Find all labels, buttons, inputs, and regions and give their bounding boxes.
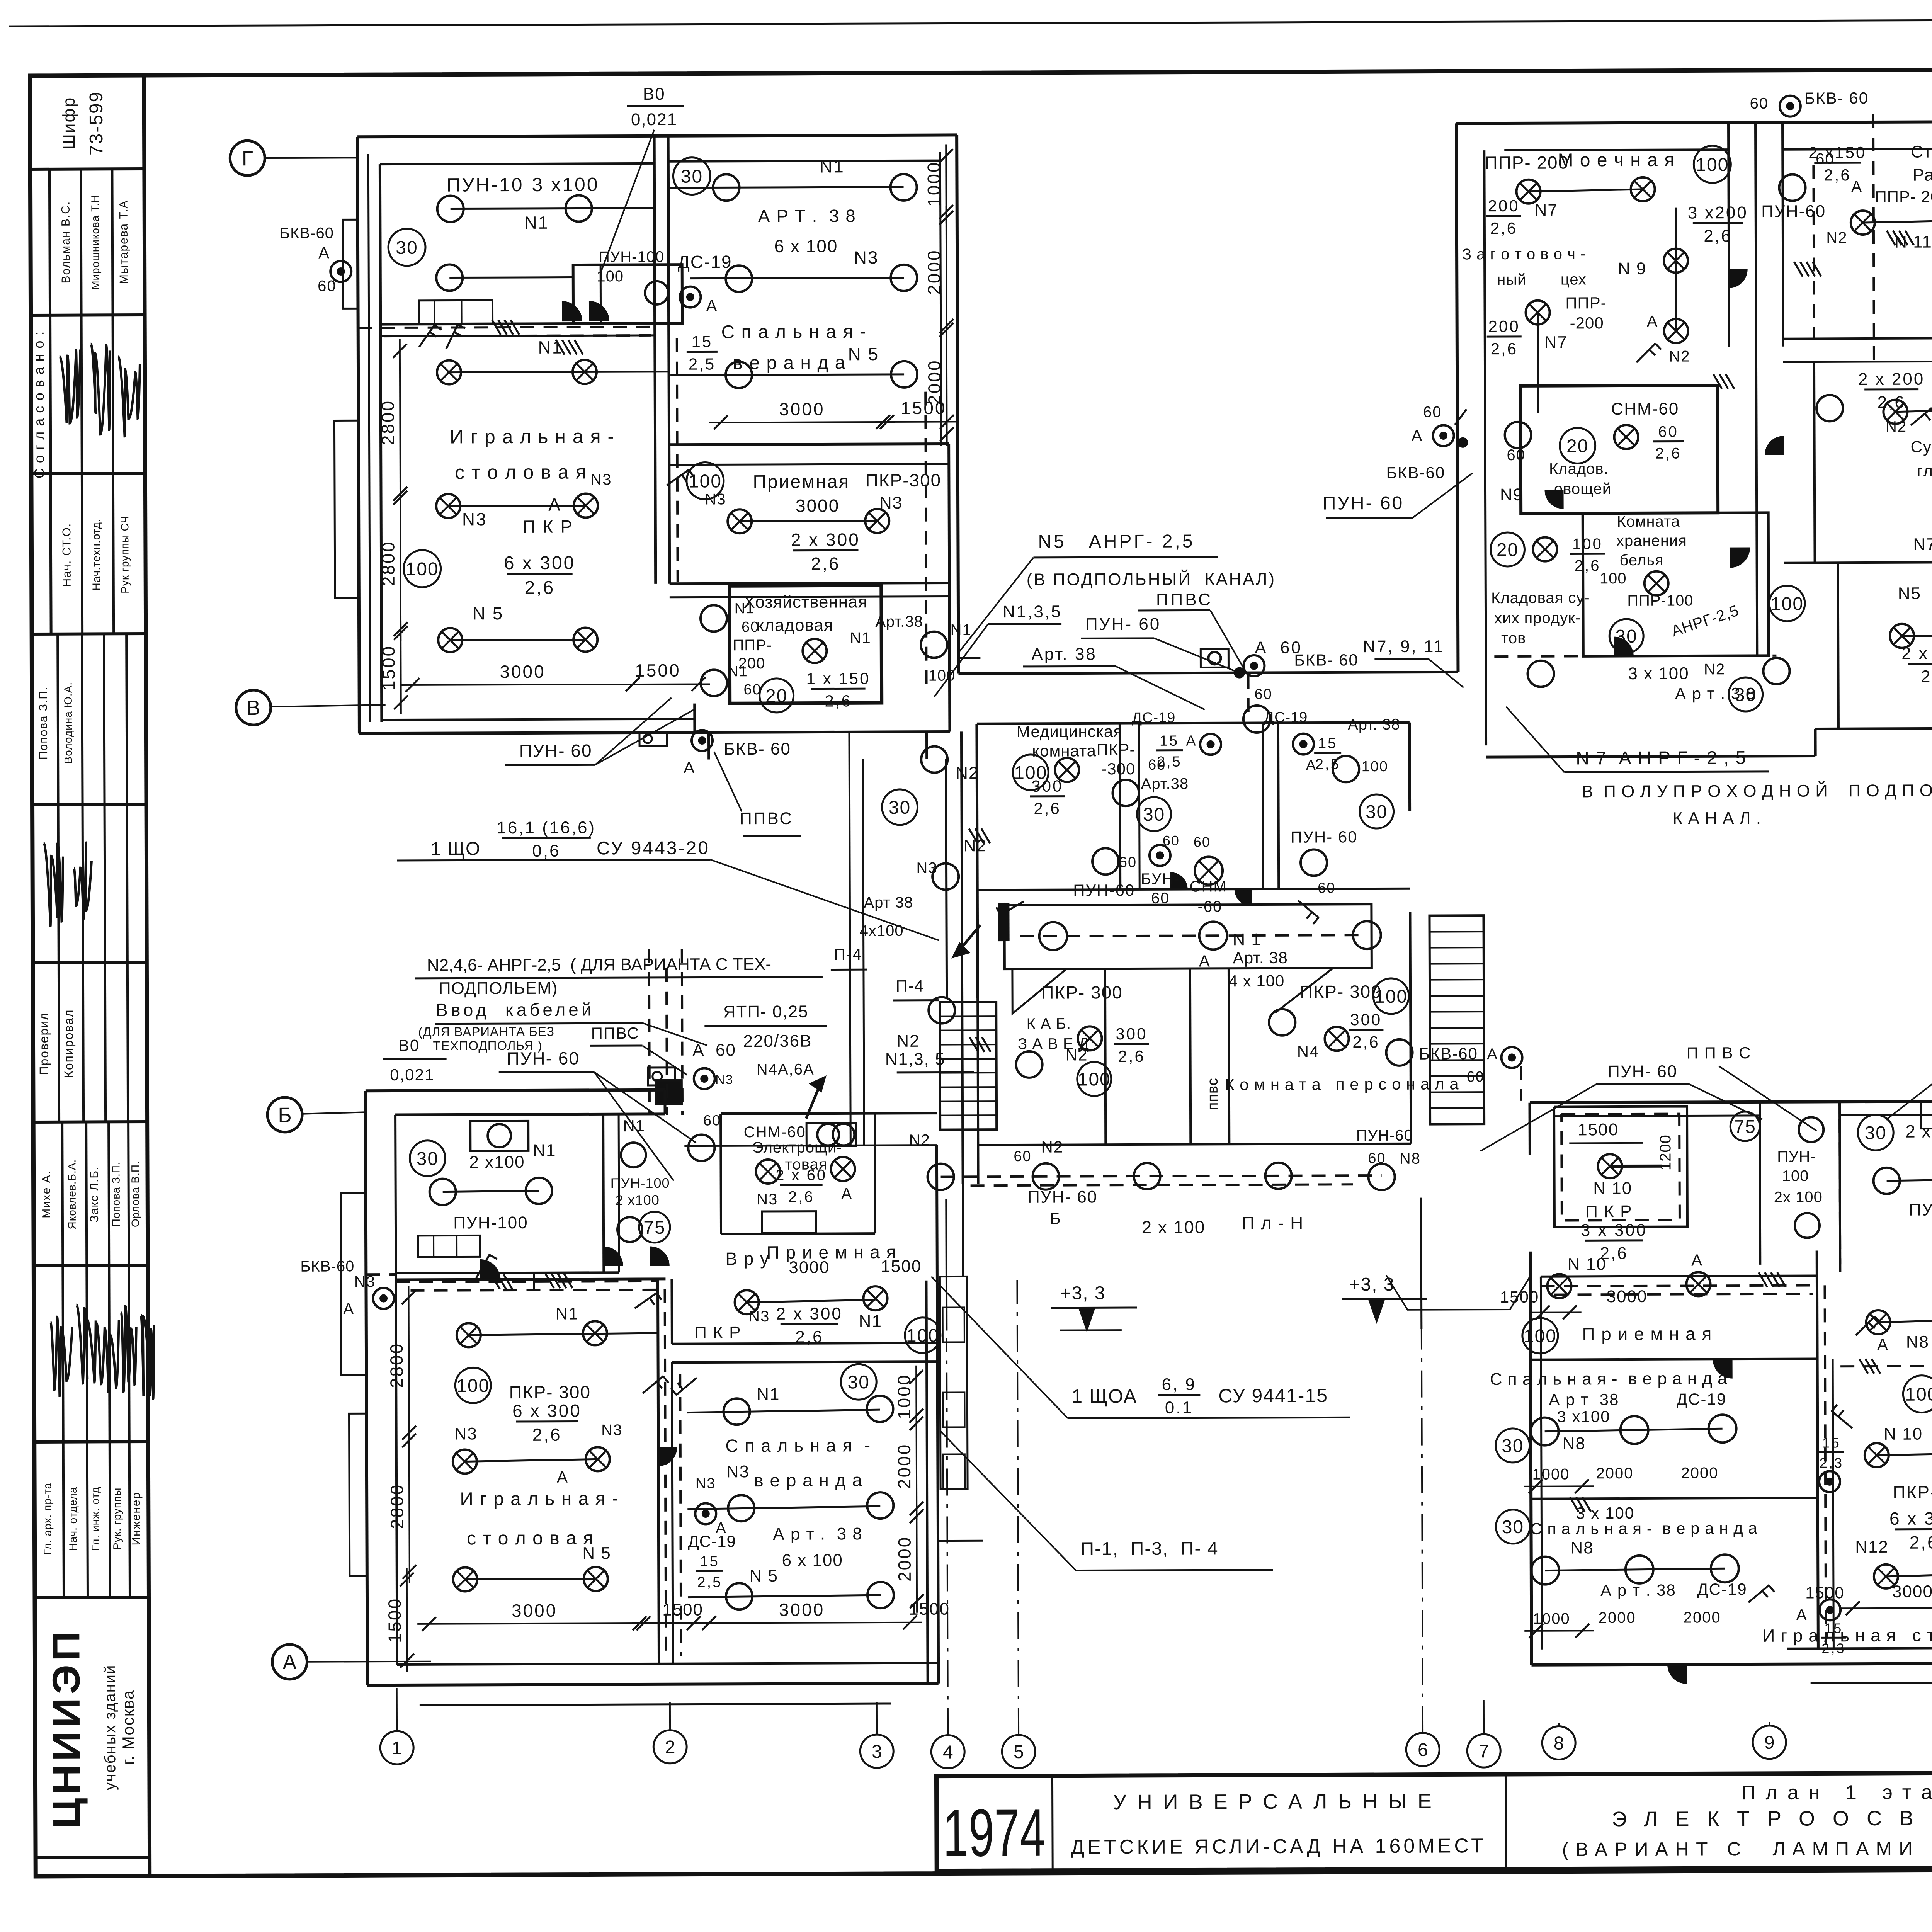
svg-text:2 х100: 2 х100 — [616, 1192, 660, 1208]
svg-text:1: 1 — [392, 1738, 402, 1759]
svg-text:ПУН-60: ПУН-60 — [1073, 881, 1135, 900]
svg-text:N8: N8 — [1400, 1150, 1421, 1167]
lamp (incandescent, circle-X) — [1890, 624, 1914, 648]
lamp (incandescent, circle-X) — [1664, 319, 1688, 343]
svg-text:100: 100 — [689, 471, 722, 492]
wire igralnaya row3 — [450, 639, 585, 640]
svg-text:П-4: П-4 — [834, 945, 862, 963]
grid line — [1483, 1700, 1485, 1734]
wire priemnaya BL — [747, 1300, 876, 1302]
wall lamp BKV (circle with dot) — [1820, 1599, 1840, 1620]
leader — [940, 1430, 1076, 1571]
TR bottom walls — [1486, 756, 1815, 757]
column bubble 4 — [931, 1735, 964, 1768]
svg-text:П р и е м н а я: П р и е м н а я — [767, 1242, 897, 1262]
pendant lamp (circle) — [645, 281, 668, 304]
svg-text:N 10: N 10 — [1593, 1179, 1632, 1198]
wire (dashed) — [1520, 1066, 1522, 1101]
svg-text:Хозяйственная: Хозяйственная — [743, 592, 867, 612]
svg-text:СНМ-60: СНМ-60 — [1611, 400, 1679, 419]
svg-text:ЭЛЕКТРООСВЕЩЕНИЕ: ЭЛЕКТРООСВЕЩЕНИЕ — [1612, 1806, 1932, 1831]
porch walls below C — [962, 1184, 964, 1276]
wire spalnya row3 — [670, 374, 904, 375]
signature — [141, 1315, 155, 1399]
svg-text:Приемная: Приемная — [753, 471, 850, 492]
dimension 2800 — [408, 1286, 409, 1444]
signature — [77, 1304, 96, 1383]
conduit hatch marks — [556, 340, 565, 355]
pendant lamp (circle) — [1134, 1163, 1160, 1189]
lamp (incandescent, circle-X) — [453, 1449, 477, 1473]
conduit hatch marks — [969, 828, 978, 843]
pendant lamp (circle) — [617, 1217, 642, 1242]
svg-text:N1: N1 — [555, 1304, 578, 1323]
pendant lamp (circle) — [566, 195, 592, 221]
svg-text:1 ЩОА: 1 ЩОА — [1071, 1385, 1137, 1407]
svg-text:60: 60 — [1014, 1148, 1031, 1165]
svg-text:А: А — [1487, 1046, 1498, 1063]
svg-text:Гл. арх. пр-та: Гл. арх. пр-та — [41, 1483, 54, 1555]
dimension 1000 — [945, 145, 947, 224]
svg-text:Кладовая су-: Кладовая су- — [1491, 589, 1590, 607]
column bubble 6 — [1406, 1733, 1439, 1766]
switch — [643, 1376, 663, 1393]
svg-text:N 5: N 5 — [582, 1544, 611, 1563]
svg-text:N1: N1 — [859, 1312, 882, 1331]
door leaf (filled arc) — [1614, 637, 1633, 656]
column bubble 1 — [380, 1731, 413, 1764]
conduit hatch marks — [491, 1274, 500, 1289]
svg-text:П л - Н: П л - Н — [1242, 1213, 1304, 1233]
pendant lamp (circle) — [1092, 848, 1119, 874]
pendant lamp (circle) — [927, 1163, 954, 1190]
lamp (incandescent, circle-X) — [1195, 857, 1223, 884]
rating circle 20 — [1560, 428, 1595, 463]
room divider TL horizontal left — [381, 323, 655, 324]
svg-text:2,6: 2,6 — [795, 1328, 823, 1347]
svg-text:Володина Ю.А.: Володина Ю.А. — [62, 682, 75, 764]
svg-text:N 10: N 10 — [1884, 1425, 1923, 1444]
leader — [710, 859, 939, 941]
pendant lamp (circle) — [1386, 1039, 1412, 1066]
svg-text:0,021: 0,021 — [631, 110, 677, 129]
dimension 3000 — [417, 1623, 651, 1624]
switch — [1748, 1585, 1769, 1602]
svg-text:100: 100 — [1524, 1326, 1557, 1347]
svg-text:Электрощи-: Электрощи- — [752, 1139, 842, 1156]
wall lamp BKV (circle with dot) — [373, 1288, 394, 1309]
svg-text:N2: N2 — [1704, 661, 1725, 678]
BR middle small room — [1760, 1102, 1760, 1265]
wall lamp BKV (circle with dot) — [1243, 655, 1264, 676]
switch — [676, 1378, 697, 1395]
wall lamp BKV (circle with dot) — [1819, 1471, 1840, 1492]
svg-text:N3: N3 — [748, 1308, 770, 1325]
lamp (incandescent, circle-X) — [583, 1321, 607, 1345]
svg-text:С п а л ь н а я - в е р а н д: С п а л ь н а я - в е р а н д а — [1530, 1519, 1757, 1538]
svg-text:хранения: хранения — [1616, 532, 1687, 550]
svg-text:ДС-19: ДС-19 — [1677, 1390, 1727, 1408]
svg-text:N3: N3 — [757, 1191, 778, 1208]
dimension 2800 — [409, 1429, 410, 1583]
rating circle 75 — [1730, 1112, 1760, 1141]
svg-text:К А Б.: К А Б. — [1026, 1015, 1071, 1032]
svg-text:А: А — [1877, 1335, 1889, 1354]
door leaf (filled arc) — [1170, 872, 1187, 889]
dimension — [632, 1622, 721, 1624]
svg-text:100: 100 — [1361, 759, 1388, 775]
C outer walls — [977, 723, 1410, 724]
svg-text:ПУН- 60: ПУН- 60 — [1323, 493, 1404, 514]
svg-text:4 х 100: 4 х 100 — [1229, 972, 1285, 990]
svg-text:ПУН-: ПУН- — [1777, 1148, 1816, 1165]
pendant lamp (circle) — [932, 863, 959, 889]
svg-text:ПУН-60: ПУН-60 — [1356, 1127, 1413, 1144]
wire (dashed) — [411, 1290, 658, 1291]
svg-text:ППР- 200: ППР- 200 — [1485, 152, 1569, 173]
svg-text:100: 100 — [1782, 1168, 1809, 1185]
svg-text:ППВС: ППВС — [740, 809, 793, 828]
lamp (incandescent, circle-X) — [1516, 180, 1540, 204]
svg-text:Б: Б — [278, 1104, 292, 1127]
svg-text:N 1: N 1 — [1233, 930, 1262, 949]
dimension 3000 — [709, 422, 895, 423]
svg-text:15: 15 — [691, 332, 713, 350]
svg-text:СУ 9443-20: СУ 9443-20 — [597, 838, 710, 859]
svg-text:0,6: 0,6 — [532, 842, 560, 861]
svg-text:Кладов.: Кладов. — [1549, 460, 1609, 477]
rating circle 100 — [905, 1318, 940, 1353]
svg-text:ПУН- 60: ПУН- 60 — [1085, 615, 1161, 634]
axis leader — [265, 157, 357, 159]
stamp column right edge — [144, 75, 150, 1876]
wire moechnaya — [1529, 189, 1643, 192]
svg-text:6 х 100: 6 х 100 — [782, 1551, 843, 1570]
svg-text:ппвс: ппвс — [1205, 1078, 1221, 1110]
pendant lamp (circle) — [921, 632, 947, 658]
conduit hatch marks — [1759, 1272, 1767, 1287]
pendant lamp (circle) — [1711, 1554, 1739, 1582]
svg-text:N 5: N 5 — [473, 603, 504, 623]
svg-text:60: 60 — [703, 1112, 721, 1129]
rating circle 100 — [1522, 1318, 1558, 1354]
svg-text:1000: 1000 — [894, 1374, 914, 1420]
svg-text:А р т 38: А р т 38 — [1549, 1390, 1619, 1409]
svg-text:А: А — [1647, 312, 1658, 330]
rating circle 100 — [1903, 1375, 1932, 1412]
wall lamp BKV (circle with dot) — [680, 287, 701, 308]
pendant lamp (circle) — [1531, 1418, 1559, 1446]
svg-text:N8: N8 — [1563, 1434, 1586, 1453]
svg-text:А 60: А 60 — [692, 1041, 736, 1060]
BR top-left room (N10 PKR) — [1554, 1107, 1687, 1227]
rating circle 75 — [639, 1212, 670, 1243]
wire top room BL — [443, 1191, 539, 1192]
room divider Spalnya/Priemnaya — [669, 444, 949, 445]
svg-text:N8: N8 — [1906, 1333, 1929, 1352]
wire (dashed) — [649, 949, 650, 1115]
svg-text:100: 100 — [406, 559, 439, 580]
porch outline center-bottom — [938, 1540, 983, 1542]
wire (dashed) — [1825, 1285, 1826, 1645]
svg-text:2: 2 — [665, 1737, 675, 1758]
rating circle 100 — [687, 462, 724, 499]
svg-text:N1: N1 — [533, 1141, 556, 1160]
svg-text:N1: N1 — [735, 600, 755, 617]
column bubble 7 — [1467, 1734, 1500, 1767]
svg-text:Попова З.П.: Попова З.П. — [110, 1162, 122, 1226]
TL balcony left — [343, 219, 358, 308]
wall lamp BKV (circle with dot) — [1780, 96, 1801, 117]
svg-text:(ДЛЯ ВАРИАНТА БЕЗ: (ДЛЯ ВАРИАНТА БЕЗ — [418, 1024, 554, 1039]
lamp (incandescent, circle-X) — [865, 509, 889, 533]
svg-text:N 5: N 5 — [750, 1566, 779, 1585]
switch — [667, 470, 689, 485]
svg-text:200: 200 — [1488, 317, 1520, 335]
svg-text:2,6: 2,6 — [1921, 667, 1932, 686]
svg-text:в е р а н д а: в е р а н д а — [733, 352, 846, 373]
svg-text:30: 30 — [1502, 1517, 1524, 1537]
axis leader — [271, 705, 386, 707]
TL bottom wall — [359, 733, 695, 734]
pendant lamp (circle) — [1208, 652, 1221, 664]
wire (dashed) — [941, 1175, 1382, 1177]
svg-text:N2: N2 — [956, 764, 979, 782]
conduit hatch marks — [1570, 1497, 1578, 1512]
lamp (incandescent, circle-X) — [586, 1447, 610, 1471]
svg-text:N 7 А Н Р Г - 2 , 5: N 7 А Н Р Г - 2 , 5 — [1576, 748, 1747, 769]
wall lamp BKV (circle with dot) — [692, 730, 713, 751]
rating circle 30 — [1609, 619, 1643, 653]
rating circle 30 — [1137, 797, 1171, 831]
svg-text:ПУН- 60: ПУН- 60 — [507, 1048, 580, 1069]
pendant lamp (circle) — [726, 362, 752, 388]
lamp (incandescent, circle-X) — [863, 1286, 887, 1310]
pendant lamp (circle) — [921, 747, 947, 773]
svg-text:N8: N8 — [1570, 1538, 1594, 1557]
wire (dashed) — [1247, 675, 1250, 721]
svg-text:3 х200: 3 х200 — [1688, 203, 1748, 222]
svg-text:N3: N3 — [705, 491, 726, 508]
svg-text:2000: 2000 — [1684, 1609, 1721, 1626]
C inner partitions — [1120, 723, 1120, 889]
svg-text:N2: N2 — [964, 836, 987, 855]
lamp (incandescent, circle-X) — [437, 360, 461, 384]
svg-text:30: 30 — [1366, 802, 1388, 822]
svg-text:3 х100: 3 х100 — [1557, 1407, 1610, 1425]
svg-text:N 10: N 10 — [1568, 1255, 1607, 1274]
svg-text:N2: N2 — [1826, 229, 1847, 246]
svg-text:1500: 1500 — [881, 1257, 922, 1276]
svg-text:П П В С: П П В С — [1687, 1044, 1752, 1062]
svg-text:ППР-: ППР- — [733, 637, 772, 654]
column bubble 5 — [1002, 1735, 1035, 1768]
door leaf (filled arc) — [1730, 548, 1750, 568]
dimension — [1524, 1485, 1594, 1487]
signature — [121, 1306, 137, 1392]
svg-text:60: 60 — [743, 682, 761, 698]
svg-text:ППР-100: ППР-100 — [1627, 592, 1693, 609]
svg-text:ЦНИИЭП: ЦНИИЭП — [44, 1628, 88, 1829]
TL block outer wall — [357, 135, 957, 137]
svg-text:-200: -200 — [1570, 314, 1604, 332]
pendant lamp (circle) — [1353, 921, 1381, 949]
svg-text:А Р Т . 3 8: А Р Т . 3 8 — [758, 206, 856, 226]
svg-text:Проверил: Проверил — [37, 1012, 51, 1075]
svg-text:15: 15 — [1318, 735, 1337, 752]
svg-text:30: 30 — [1143, 804, 1165, 825]
svg-text:4: 4 — [943, 1742, 953, 1762]
wire (dashed) — [677, 338, 678, 582]
pendant lamp (circle) — [701, 605, 727, 631]
wire igralnaya row1 — [449, 372, 669, 372]
dimension — [621, 683, 710, 685]
door leaf (filled arc) — [562, 301, 582, 321]
axis mark Б — [267, 1097, 302, 1132]
svg-text:А: А — [1411, 427, 1423, 445]
pendant lamp (circle) — [728, 1495, 754, 1521]
wire igralnaya row2 — [448, 505, 586, 506]
BL top room divider — [603, 1114, 604, 1272]
wire (dashed) — [1494, 656, 1776, 656]
signature — [118, 357, 140, 436]
wire (dashed) — [1561, 1114, 1680, 1221]
grid line — [1422, 1329, 1423, 1733]
lamp (incandescent, circle-X) — [1631, 177, 1655, 201]
pendant lamp (circle) — [1531, 1557, 1559, 1585]
pendant lamp (circle) — [436, 264, 463, 291]
svg-text:2 х100: 2 х100 — [1905, 1121, 1932, 1141]
door leaf (filled arc) — [1729, 269, 1747, 288]
svg-text:100: 100 — [1078, 1069, 1111, 1090]
leader — [1413, 473, 1473, 517]
pendant lamp (circle) — [726, 1583, 752, 1609]
axis mark В — [236, 690, 271, 725]
TL corridor walls bottom — [707, 732, 710, 759]
svg-text:Нач. СТ.О.: Нач. СТ.О. — [60, 523, 73, 587]
lamp (incandescent, circle-X) — [1533, 537, 1557, 561]
svg-text:Мирошникова Т.Н: Мирошникова Т.Н — [89, 194, 102, 290]
svg-text:1000: 1000 — [1533, 1610, 1570, 1627]
leader arrow YATP — [806, 1082, 821, 1119]
svg-text:N1: N1 — [950, 621, 971, 638]
wire (dashed) — [680, 1374, 681, 1656]
svg-text:С п а л ь н а я - в е р а н д: С п а л ь н а я - в е р а н д а — [1490, 1369, 1728, 1389]
wire row3 — [1886, 1574, 1932, 1577]
svg-text:ППВС: ППВС — [1156, 590, 1213, 609]
wall center TR vertical — [1814, 362, 1815, 563]
svg-text:А: А — [1796, 1607, 1808, 1624]
svg-text:Вольман В.С.: Вольман В.С. — [60, 201, 73, 284]
wire (dashed) — [682, 949, 682, 1115]
svg-text:Ввод кабелей: Ввод кабелей — [436, 999, 594, 1020]
grid line — [1769, 1722, 1770, 1726]
wire — [1610, 1165, 1662, 1168]
svg-text:6 х 300: 6 х 300 — [1889, 1508, 1932, 1529]
svg-text:А: А — [557, 1468, 568, 1486]
pendant lamp (circle) — [1709, 1415, 1736, 1442]
pendant lamp (circle) — [430, 1179, 456, 1205]
svg-text:ЯТП- 0,25: ЯТП- 0,25 — [723, 1002, 809, 1022]
grid line — [947, 1338, 948, 1735]
svg-text:2,5: 2,5 — [689, 355, 716, 373]
wire row2 — [1877, 1453, 1932, 1455]
svg-text:А: А — [1199, 952, 1211, 970]
svg-text:1974: 1974 — [943, 1795, 1046, 1871]
svg-text:75: 75 — [643, 1218, 666, 1238]
svg-text:2 х 300: 2 х 300 — [1901, 644, 1932, 663]
svg-text:3000: 3000 — [789, 1258, 830, 1277]
room divider TL vertical — [654, 136, 656, 584]
svg-text:СУ 9441-15: СУ 9441-15 — [1218, 1384, 1328, 1406]
stamp row line — [30, 167, 144, 171]
svg-text:БКВ-60: БКВ-60 — [1419, 1044, 1478, 1063]
pendant lamp (circle) — [1626, 1556, 1653, 1583]
wall lamp BKV (circle with dot) — [695, 1503, 716, 1524]
svg-text:СНМ-60: СНМ-60 — [744, 1124, 806, 1141]
C left corridor walls — [946, 759, 947, 998]
door leaf (filled arc) — [1545, 490, 1563, 509]
svg-text:2,6: 2,6 — [1352, 1033, 1380, 1051]
svg-text:2,6: 2,6 — [1824, 166, 1851, 184]
svg-text:8: 8 — [1554, 1733, 1564, 1754]
svg-text:N2,4,6- АНРГ-2,5 ( ДЛЯ ВАРИАН: N2,4,6- АНРГ-2,5 ( ДЛЯ ВАРИАНТА С ТЕХ- — [427, 955, 771, 975]
svg-text:60: 60 — [1163, 833, 1180, 849]
rating circle 100 — [1013, 755, 1048, 790]
BR spalnya2 — [1531, 1498, 1818, 1498]
signature — [97, 1320, 119, 1391]
staircase — [940, 1002, 997, 1129]
svg-text:А: А — [684, 759, 695, 777]
svg-text:И г р а л ь н а я с т о л о: И г р а л ь н а я с т о л о в а я — [1762, 1625, 1932, 1646]
svg-text:2000: 2000 — [1596, 1465, 1633, 1482]
svg-text:3000: 3000 — [500, 662, 546, 682]
washroom TL walls — [573, 265, 682, 324]
dimension 1500 — [406, 1568, 408, 1672]
pendant lamp (circle) — [688, 1134, 714, 1161]
svg-text:1000: 1000 — [1532, 1466, 1570, 1483]
pendant lamp (circle) — [1199, 922, 1227, 949]
svg-text:2 х 300: 2 х 300 — [776, 1304, 842, 1323]
svg-text:2,6: 2,6 — [1655, 445, 1682, 462]
svg-text:5: 5 — [1014, 1742, 1024, 1762]
svg-text:Согласовано:: Согласовано: — [31, 326, 47, 479]
door leaf (filled arc) — [1765, 436, 1784, 455]
corridor walls TL-BL side — [849, 732, 850, 1145]
svg-text:100: 100 — [1600, 570, 1627, 587]
svg-text:ПУН-60: ПУН-60 — [1761, 202, 1826, 221]
svg-text:N3: N3 — [854, 247, 879, 267]
svg-text:2,6: 2,6 — [524, 578, 555, 598]
svg-text:100: 100 — [456, 1376, 490, 1396]
switch — [1856, 1316, 1875, 1335]
svg-text:БКВ- 60: БКВ- 60 — [1804, 89, 1869, 107]
svg-text:N4А,6А: N4А,6А — [757, 1061, 815, 1078]
BL right walls — [926, 1281, 927, 1684]
svg-text:Закс Л.Б.: Закс Л.Б. — [88, 1166, 100, 1223]
svg-text:Рук группы СЧ: Рук группы СЧ — [119, 515, 131, 593]
svg-text:ПКР- 300: ПКР- 300 — [509, 1382, 591, 1402]
svg-text:3 х 300: 3 х 300 — [1581, 1221, 1647, 1240]
switch — [1636, 344, 1655, 362]
C lower partitions — [978, 969, 978, 1184]
svg-text:в е р а н д а: в е р а н д а — [754, 1470, 863, 1490]
BR left walls — [1530, 1252, 1531, 1665]
rating circle 30 — [410, 1141, 445, 1176]
svg-text:N1: N1 — [728, 663, 748, 680]
svg-text:3000: 3000 — [796, 495, 840, 515]
svg-text:ПКР- 300: ПКР- 300 — [1893, 1482, 1932, 1502]
